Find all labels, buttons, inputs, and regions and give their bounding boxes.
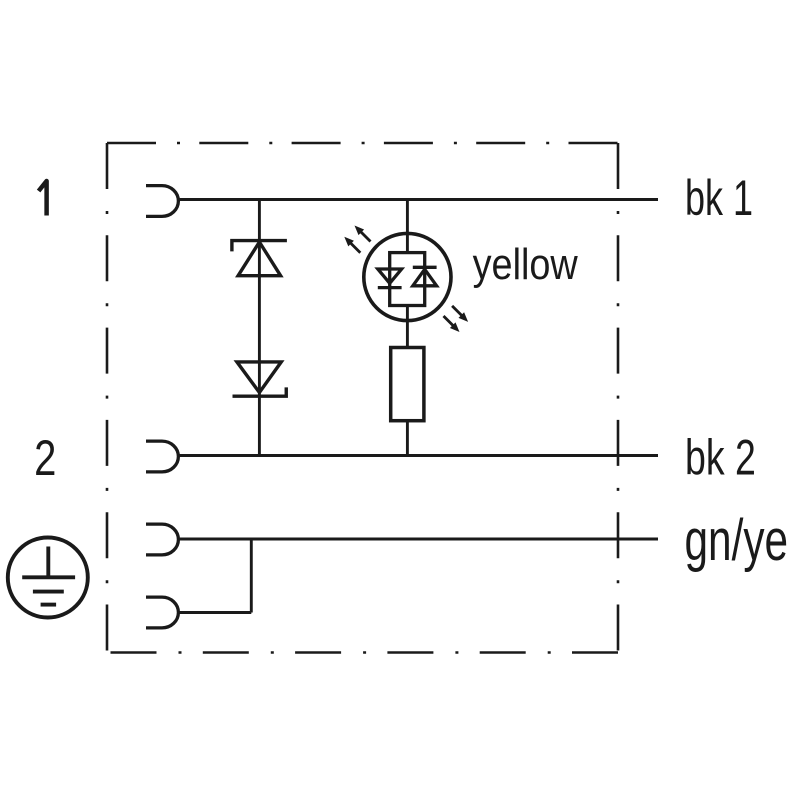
zener diode Z2 (lower, cathode bar with hook) — [237, 362, 281, 393]
light arrow upper-left 2 — [344, 237, 360, 253]
LED diode right (up) — [413, 266, 437, 269]
svg-text:bk 1: bk 1 — [685, 171, 753, 226]
light arrow upper-left 1 — [355, 226, 371, 242]
pin 1 contact — [146, 186, 178, 217]
pin 2 contact — [146, 441, 178, 472]
housing outline (dash-dot border) top edge — [107, 142, 618, 145]
pin 3 contact (PE upper) — [146, 524, 178, 555]
wire LED circle to resistor — [406, 306, 409, 348]
LED diode left (down) — [378, 269, 402, 283]
wire suppressor branch vertical — [258, 200, 261, 456]
light arrow lower-right 2 — [444, 316, 460, 332]
housing outline bottom edge — [107, 651, 618, 654]
wire pin4 horizontal — [178, 611, 251, 614]
housing outline left edge — [106, 143, 109, 653]
LED indicator circle — [364, 233, 451, 320]
pin label 1 — [39, 181, 47, 216]
wire pin4 to pin3 vertical — [250, 539, 253, 613]
svg-text:bk 2: bk 2 — [685, 430, 756, 485]
LED inner frame — [390, 253, 425, 306]
light arrow lower-right 1 — [452, 306, 468, 322]
housing outline right edge — [617, 143, 620, 653]
resistor R1 — [391, 348, 424, 421]
svg-text:2: 2 — [34, 430, 56, 486]
wire pin1 to bk1 — [178, 198, 658, 201]
wire pin3 to gn/ye — [178, 538, 658, 541]
protective earth symbol — [8, 538, 88, 618]
svg-text:gn/ye: gn/ye — [685, 507, 789, 572]
zener diode Z1 (upper, cathode bar with hook) — [232, 241, 287, 252]
svg-text:yellow: yellow — [473, 239, 579, 288]
wire pin2 to bk2 — [178, 454, 658, 457]
wire LED branch top — [406, 200, 409, 253]
wire resistor to wire2 — [406, 421, 409, 456]
pin 4 contact (PE lower) — [146, 597, 178, 628]
